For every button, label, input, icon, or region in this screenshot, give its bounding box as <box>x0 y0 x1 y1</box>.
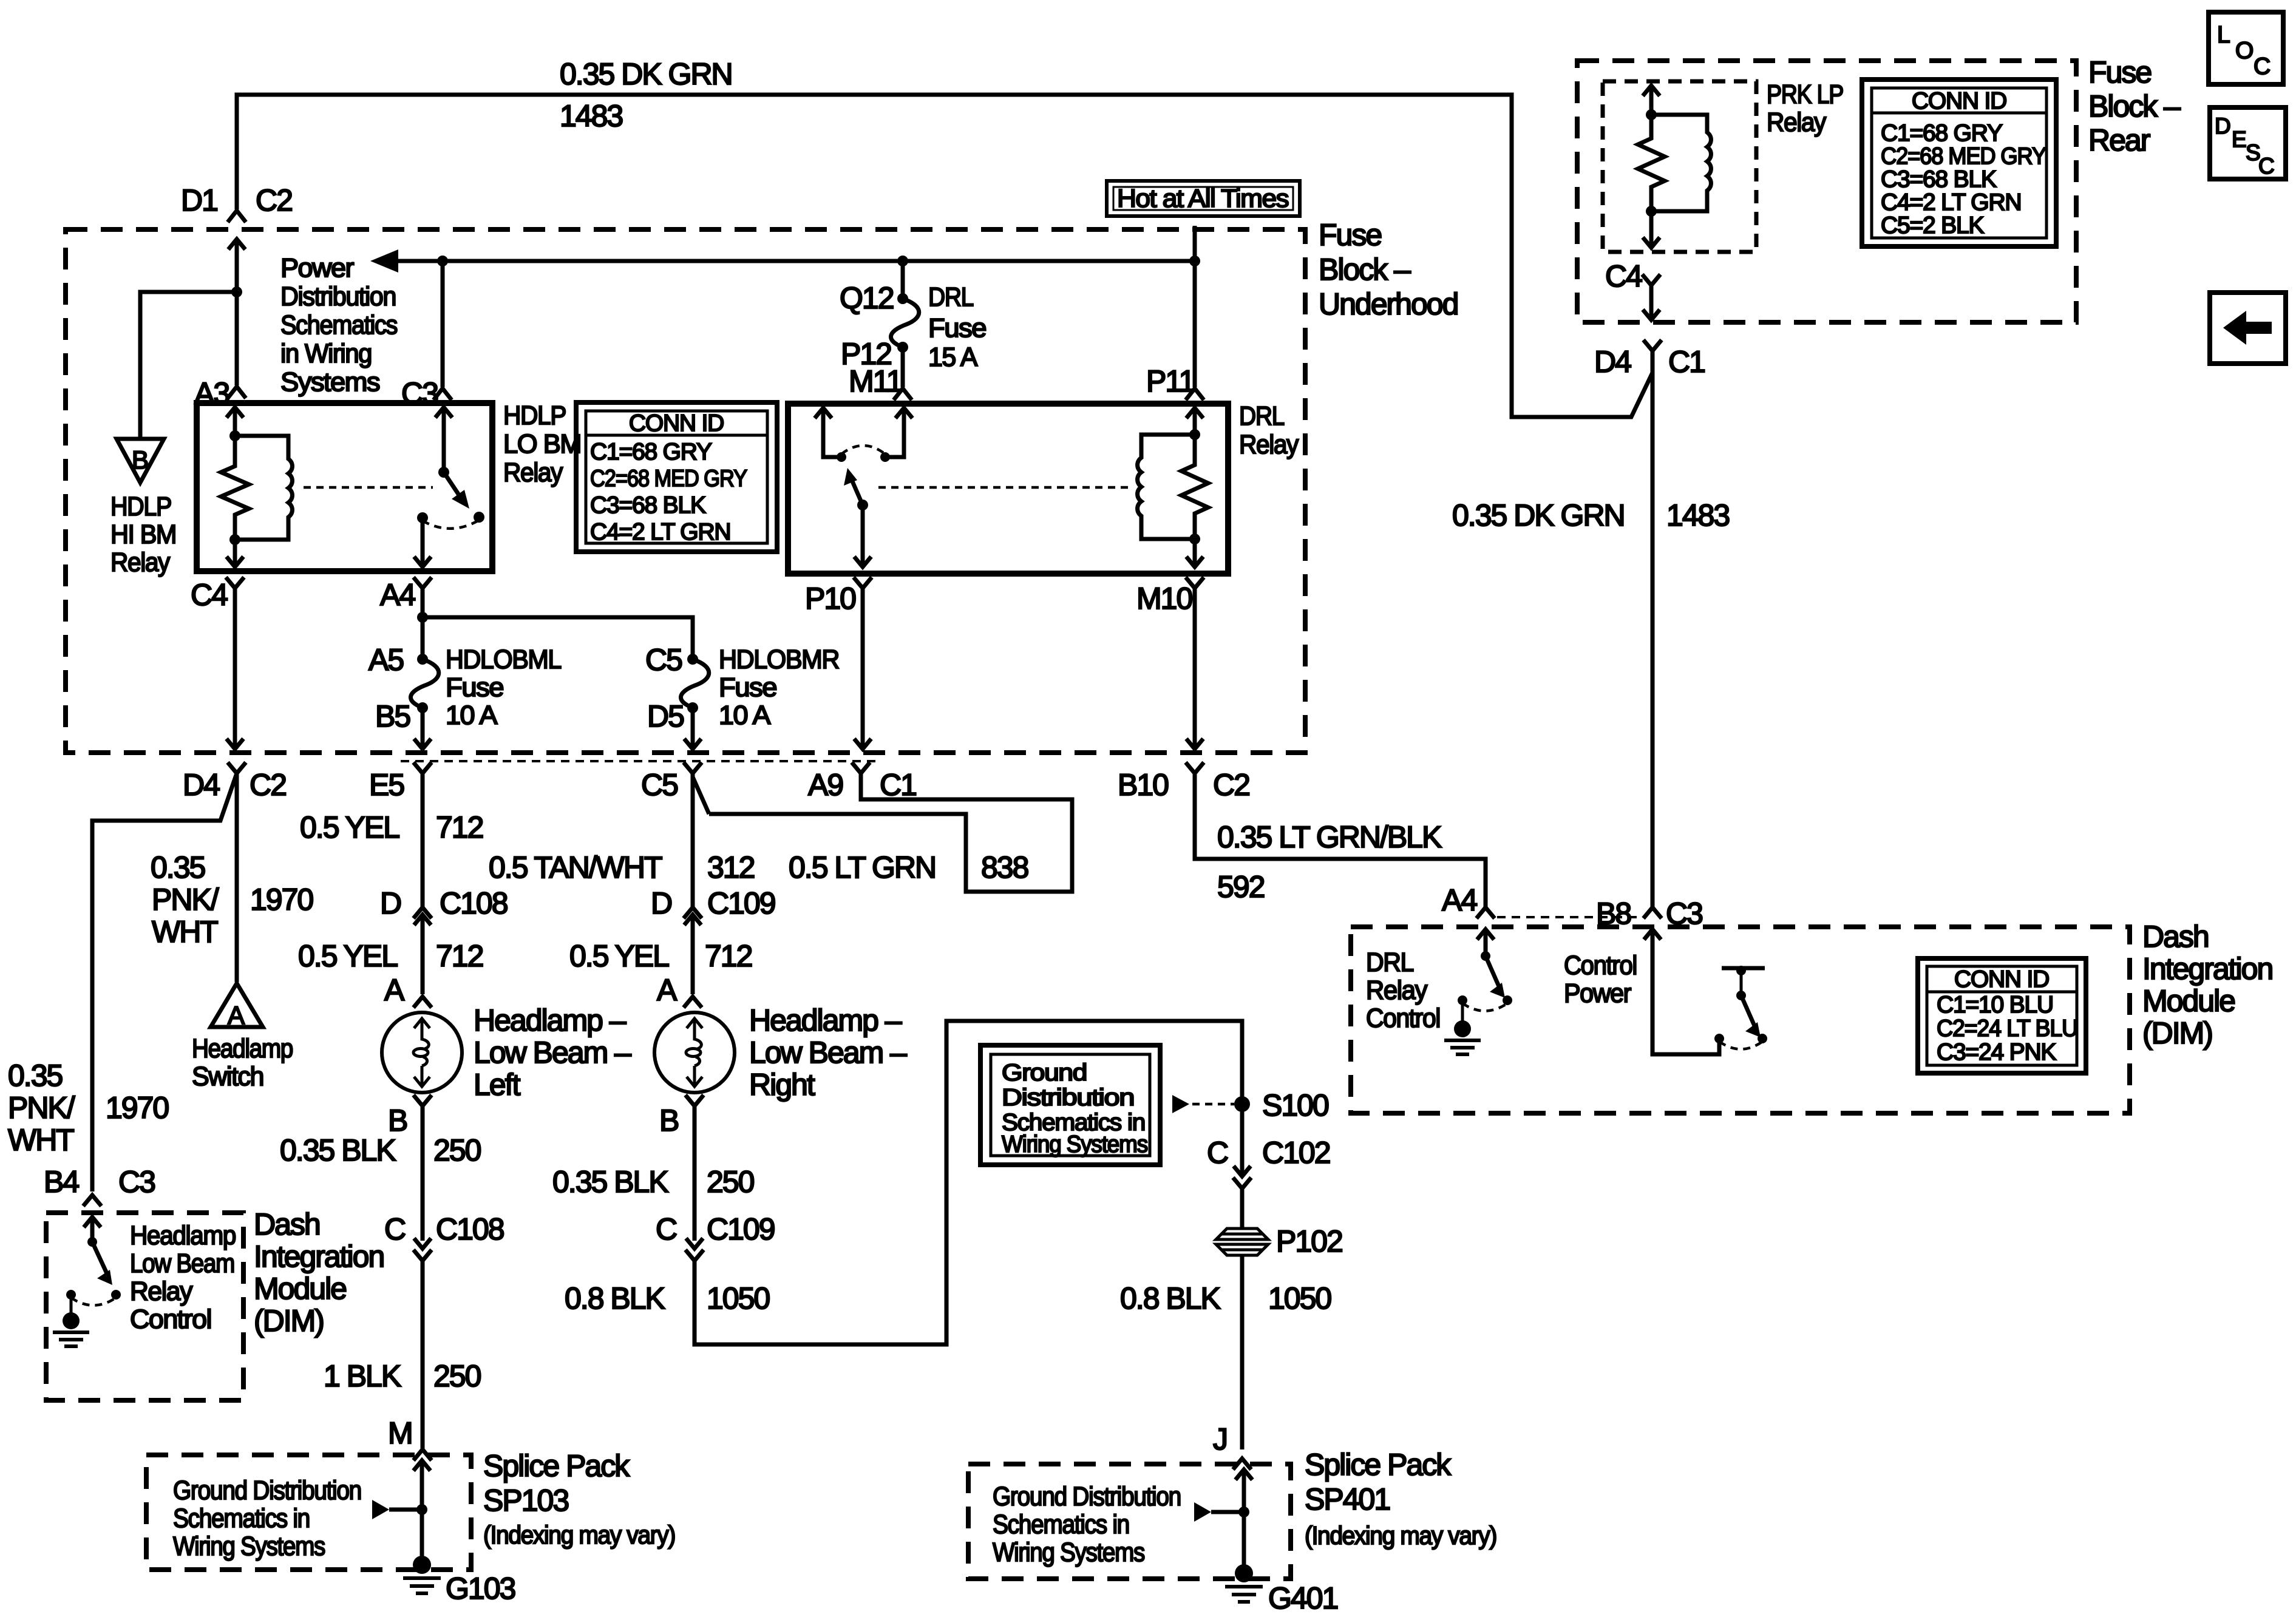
svg-text:Schematics: Schematics <box>280 310 397 340</box>
connector fork C4 PRK <box>1642 274 1660 320</box>
svg-text:A5: A5 <box>369 643 403 677</box>
junction dot coil bottom <box>229 534 240 545</box>
dashed throw arc control power <box>1719 1042 1762 1049</box>
svg-text:Relay: Relay <box>130 1276 192 1306</box>
wire A4 to fuse HDLOBML <box>421 617 425 659</box>
connector face dashed line C1 row <box>401 760 877 762</box>
svg-text:Fuse: Fuse <box>446 673 503 702</box>
connector pair C108 row C <box>413 1238 432 1449</box>
svg-text:Control: Control <box>1564 951 1637 980</box>
svg-text:0.35: 0.35 <box>151 850 205 884</box>
svg-text:1483: 1483 <box>1666 498 1729 532</box>
connector fork A4 DIM <box>1476 907 1495 918</box>
wire P10 to boundary <box>854 577 872 749</box>
svg-text:LO BM: LO BM <box>503 429 581 459</box>
svg-text:CONN ID: CONN ID <box>629 410 724 436</box>
svg-text:(Indexing may vary): (Indexing may vary) <box>483 1520 675 1549</box>
junction dot DRL fuse branch <box>897 256 908 266</box>
wire 1050 right lamp to S100 <box>695 1021 1242 1344</box>
DIM left dashed box <box>46 1213 243 1400</box>
svg-text:C: C <box>656 1212 677 1246</box>
switch contact dots DIM left <box>111 1290 121 1300</box>
svg-text:M10: M10 <box>1136 581 1192 615</box>
svg-text:J: J <box>1213 1422 1227 1456</box>
svg-text:B: B <box>388 1103 407 1137</box>
wire C3 drop <box>441 261 445 387</box>
fuse DRL terminal dot Q12 <box>897 293 908 304</box>
coil HDLP LO BM relay <box>235 436 292 540</box>
svg-text:Relay: Relay <box>1767 107 1826 137</box>
connector fork lamp left A <box>413 997 432 1008</box>
dashed throw arc DRL relay control <box>1462 1003 1507 1011</box>
svg-text:L: L <box>2217 22 2230 48</box>
svg-text:Fuse: Fuse <box>928 313 986 343</box>
triangle reference B (HDLP HI BM Relay) <box>117 439 164 483</box>
arrow pointer to S100 <box>1172 1095 1189 1113</box>
svg-text:D4: D4 <box>183 768 220 802</box>
svg-text:in Wiring: in Wiring <box>280 339 372 368</box>
svg-text:P10: P10 <box>805 581 855 615</box>
connector fork A9/C1 <box>852 762 870 773</box>
svg-text:B5: B5 <box>375 699 410 733</box>
junction dot SP103 <box>416 1504 427 1515</box>
svg-text:B: B <box>659 1103 678 1137</box>
headlamp low beam left bulb <box>382 1012 462 1093</box>
svg-text:1050: 1050 <box>707 1281 769 1315</box>
svg-text:C4=2 LT GRN: C4=2 LT GRN <box>1881 189 2021 215</box>
ground G103 <box>420 1510 424 1558</box>
connector fork B4/C3 <box>83 1195 101 1206</box>
svg-text:Ground: Ground <box>1002 1060 1087 1086</box>
svg-text:0.5 YEL: 0.5 YEL <box>300 810 399 844</box>
splice pack SP103 dashed box <box>146 1455 471 1570</box>
svg-text:Underhood: Underhood <box>1319 287 1458 321</box>
Fuse Block Underhood dashed box <box>66 229 1305 753</box>
dashed actuator link DRL relay <box>878 486 1128 489</box>
dashed actuator link HDLP relay <box>304 486 433 489</box>
connector fork lamp left B <box>413 1095 432 1241</box>
svg-text:(DIM): (DIM) <box>2142 1016 2212 1050</box>
svg-text:M: M <box>388 1416 412 1450</box>
svg-text:0.8 BLK: 0.8 BLK <box>565 1281 665 1315</box>
svg-text:Switch: Switch <box>192 1062 263 1091</box>
DIM right dashed box <box>1351 927 2130 1113</box>
svg-text:0.35: 0.35 <box>8 1059 63 1093</box>
fuse DRL terminal dot P12 <box>897 342 908 353</box>
svg-text:0.5 LT GRN: 0.5 LT GRN <box>789 850 936 884</box>
svg-text:1 BLK: 1 BLK <box>324 1359 401 1393</box>
svg-text:Hot at All Times: Hot at All Times <box>1117 184 1289 212</box>
svg-text:1970: 1970 <box>106 1091 168 1125</box>
svg-text:10 A: 10 A <box>446 700 498 730</box>
svg-text:C2: C2 <box>1213 768 1249 802</box>
connector fork lamp right A <box>684 997 702 1008</box>
svg-text:P11: P11 <box>1146 364 1194 398</box>
svg-text:DRL: DRL <box>1366 947 1414 977</box>
svg-text:0.5 YEL: 0.5 YEL <box>569 939 669 973</box>
coil DRL relay <box>1138 435 1195 539</box>
connector fork C3 <box>433 388 452 400</box>
wire D5 to boundary <box>684 708 701 749</box>
junction dot coil top <box>229 430 240 441</box>
svg-text:Headlamp: Headlamp <box>192 1034 293 1063</box>
ground inside DIM right <box>1461 1000 1464 1022</box>
wire 592 from B10 to DIM A4 <box>1195 773 1486 907</box>
svg-text:HDLOBMR: HDLOBMR <box>719 645 839 674</box>
svg-text:Dash: Dash <box>2142 920 2209 954</box>
svg-text:592: 592 <box>1217 870 1265 904</box>
switch control power fixed bar <box>1722 966 1765 971</box>
arrow to Power Distribution Schematics <box>370 249 398 273</box>
connector fork M splice pack <box>413 1449 432 1460</box>
svg-text:C: C <box>384 1212 406 1246</box>
wire D1 to A3 <box>235 292 239 385</box>
svg-text:712: 712 <box>436 810 483 844</box>
Fuse Block Rear dashed box <box>1577 61 2076 322</box>
inline connector P102 <box>1216 1229 1268 1239</box>
junction dot below D1 <box>231 286 242 297</box>
svg-text:Fuse: Fuse <box>1319 218 1381 252</box>
svg-text:S100: S100 <box>1262 1088 1328 1122</box>
back arrow box <box>2210 293 2286 364</box>
svg-text:Relay: Relay <box>1366 975 1427 1005</box>
arrow NC throw DRL relay <box>815 408 841 457</box>
ground inside DIM left <box>70 1295 73 1314</box>
headlamp low beam right bulb <box>654 1012 735 1093</box>
svg-text:Low Beam: Low Beam <box>130 1249 234 1278</box>
svg-text:C3: C3 <box>1666 897 1702 931</box>
svg-text:G103: G103 <box>446 1571 515 1605</box>
svg-text:Wiring Systems: Wiring Systems <box>993 1537 1144 1567</box>
connector face dashed line DIM <box>1497 916 1643 918</box>
junction dot SP401 <box>1238 1507 1249 1517</box>
svg-text:CONN ID: CONN ID <box>1954 966 2049 992</box>
svg-text:WHT: WHT <box>152 915 218 949</box>
svg-text:HDLP: HDLP <box>110 492 171 521</box>
svg-text:Splice Pack: Splice Pack <box>1305 1448 1452 1482</box>
svg-text:C: C <box>2254 53 2270 80</box>
junction dot DRL coil bottom <box>1189 534 1200 544</box>
svg-text:712: 712 <box>705 939 752 973</box>
splice S100 junction dot <box>1234 1096 1250 1112</box>
connector fork J splice pack <box>1233 1459 1251 1470</box>
connector fork C4 under relay <box>226 577 244 749</box>
svg-text:0.35 DK GRN: 0.35 DK GRN <box>560 57 732 91</box>
svg-text:Rear: Rear <box>2088 123 2150 157</box>
wire arm to P10 arrow <box>854 505 871 567</box>
svg-text:SP401: SP401 <box>1305 1482 1390 1516</box>
svg-text:Power: Power <box>280 253 354 283</box>
connector pair C109 row D <box>684 907 702 994</box>
fuse HDLOBML element <box>411 659 439 708</box>
svg-text:C3=68 BLK: C3=68 BLK <box>590 492 706 518</box>
wire 1970 diagonal to headlamp switch feed <box>92 773 237 1192</box>
svg-text:PRK LP: PRK LP <box>1767 80 1843 109</box>
connector pair C102 <box>1233 1166 1251 1227</box>
svg-text:Block –: Block – <box>2088 89 2181 123</box>
svg-text:P102: P102 <box>1276 1224 1342 1258</box>
svg-text:D: D <box>380 886 401 920</box>
svg-text:Systems: Systems <box>280 367 380 397</box>
svg-text:DRL: DRL <box>928 282 974 312</box>
svg-text:A: A <box>384 973 405 1007</box>
svg-text:CONN ID: CONN ID <box>1912 88 2006 114</box>
wire M10 to boundary <box>1186 577 1204 749</box>
svg-text:C3=24 PNK: C3=24 PNK <box>1937 1039 2056 1065</box>
svg-text:(DIM): (DIM) <box>254 1304 324 1338</box>
svg-text:A: A <box>228 1001 245 1029</box>
connector pair C109 row C <box>685 1238 704 1261</box>
arrow into box at D1 <box>228 239 245 292</box>
arrow pin M10 inside DRL relay <box>1186 539 1203 567</box>
arrow pin C4 inside relay <box>226 540 243 567</box>
wire 1483 top run from D1/C2 to D4/C1 <box>237 95 1652 417</box>
switch arm HDLP relay <box>435 407 452 472</box>
arrow Ground Distribution pointer SP401 <box>1194 1502 1211 1522</box>
svg-text:Module: Module <box>2142 984 2235 1018</box>
svg-text:C109: C109 <box>707 886 775 920</box>
arrow pin P11 inside DRL relay <box>1186 408 1203 435</box>
resistor DRL relay <box>1181 435 1208 539</box>
svg-text:Control: Control <box>130 1304 211 1334</box>
svg-text:Q12: Q12 <box>840 281 894 315</box>
svg-text:250: 250 <box>433 1359 481 1393</box>
svg-text:Left: Left <box>474 1068 521 1102</box>
svg-text:D1: D1 <box>181 183 217 217</box>
svg-text:M11: M11 <box>849 364 902 398</box>
connector fork P11 <box>1186 388 1204 400</box>
svg-text:Headlamp: Headlamp <box>130 1221 236 1250</box>
fuse HDLOBMR terminal dot D5 <box>687 702 698 713</box>
ground G401 <box>1242 1512 1246 1566</box>
svg-text:C: C <box>1207 1136 1228 1170</box>
svg-text:SP103: SP103 <box>483 1483 568 1517</box>
svg-text:Low Beam –: Low Beam – <box>474 1036 631 1070</box>
svg-text:WHT: WHT <box>8 1123 74 1157</box>
svg-text:D5: D5 <box>647 699 684 733</box>
svg-text:C5=2 BLK: C5=2 BLK <box>1881 212 1984 239</box>
connector fork A3 <box>228 387 246 398</box>
svg-text:0.8 BLK: 0.8 BLK <box>1120 1281 1221 1315</box>
svg-text:HI BM: HI BM <box>110 520 176 549</box>
svg-text:C5: C5 <box>641 768 678 802</box>
svg-text:C3: C3 <box>118 1165 155 1199</box>
CONN ID table DIM <box>1918 958 2086 1073</box>
arrow into DIM at B8 and feed wire <box>1644 929 1719 1054</box>
svg-text:B4: B4 <box>44 1165 79 1199</box>
arrow Ground Distribution pointer SP103 <box>372 1500 389 1519</box>
svg-text:15 A: 15 A <box>928 342 978 372</box>
svg-text:(Indexing may vary): (Indexing may vary) <box>1305 1521 1496 1550</box>
svg-text:Right: Right <box>749 1068 815 1102</box>
svg-text:10 A: 10 A <box>719 700 771 730</box>
resistor PRK LP relay <box>1638 115 1665 211</box>
svg-text:Ground Distribution: Ground Distribution <box>173 1476 361 1505</box>
svg-text:E: E <box>2232 127 2247 152</box>
svg-text:C1=10 BLU: C1=10 BLU <box>1937 992 2053 1018</box>
svg-text:C108: C108 <box>436 1212 504 1246</box>
svg-text:O: O <box>2235 38 2253 64</box>
svg-text:Distribution: Distribution <box>280 282 396 311</box>
wire drop to Q12 <box>901 261 905 299</box>
svg-text:C109: C109 <box>707 1212 775 1246</box>
svg-text:0.5 YEL: 0.5 YEL <box>298 939 398 973</box>
svg-text:D: D <box>651 886 671 920</box>
Hot at All Times box <box>1107 181 1300 216</box>
svg-text:PNK/: PNK/ <box>152 883 219 917</box>
switch contact dots HDLP relay <box>417 512 428 523</box>
svg-text:C102: C102 <box>1262 1136 1330 1170</box>
svg-text:C2: C2 <box>250 768 286 802</box>
svg-text:HDLP: HDLP <box>503 401 566 430</box>
svg-text:B10: B10 <box>1118 768 1168 802</box>
svg-text:A4: A4 <box>380 578 415 612</box>
svg-text:Fuse: Fuse <box>719 673 776 702</box>
svg-text:Ground Distribution: Ground Distribution <box>993 1482 1181 1511</box>
connector fork A4 under relay <box>413 577 432 617</box>
arrow pin A3 inside relay <box>226 407 243 436</box>
svg-text:C1=68 GRY: C1=68 GRY <box>590 439 712 465</box>
svg-text:D4: D4 <box>1594 345 1631 379</box>
relay DRL box <box>788 404 1228 574</box>
svg-text:Schematics in: Schematics in <box>173 1503 310 1533</box>
wire branch to HDLP HI BM triangle B <box>140 292 237 438</box>
svg-text:1483: 1483 <box>560 99 622 133</box>
svg-text:C2=68 MED GRY: C2=68 MED GRY <box>1881 143 2046 169</box>
svg-text:Integration: Integration <box>254 1239 384 1273</box>
fuse HDLOBMR element <box>681 659 709 708</box>
svg-text:C108: C108 <box>440 886 508 920</box>
svg-text:Relay: Relay <box>503 458 563 487</box>
connector fork D1/C2 <box>228 211 246 222</box>
wire 1483 vertical D4/C1 to B8 <box>1651 351 1655 907</box>
svg-text:B8: B8 <box>1596 897 1631 931</box>
svg-text:A: A <box>657 973 678 1007</box>
svg-text:Splice Pack: Splice Pack <box>483 1449 630 1483</box>
svg-text:1970: 1970 <box>250 883 313 917</box>
svg-text:C2=68 MED GRY: C2=68 MED GRY <box>590 466 747 492</box>
svg-text:Fuse: Fuse <box>2088 55 2151 89</box>
svg-text:312: 312 <box>707 850 755 884</box>
junction dot C3 branch <box>437 256 448 266</box>
svg-text:0.35 LT GRN/BLK: 0.35 LT GRN/BLK <box>1217 820 1442 854</box>
svg-text:C3=68 BLK: C3=68 BLK <box>1881 166 1997 192</box>
junction dot PRK coil top <box>1646 109 1657 120</box>
connector fork lamp right B <box>685 1095 704 1241</box>
wire contact to A4 arrow <box>414 518 431 567</box>
svg-text:PNK/: PNK/ <box>8 1091 75 1125</box>
wire P12 to M11 <box>901 347 905 387</box>
svg-text:0.5 TAN/WHT: 0.5 TAN/WHT <box>489 850 662 884</box>
wire P102 to J <box>1240 1254 1245 1449</box>
switch arm control power <box>1736 991 1746 1000</box>
switch arm DRL relay <box>857 500 868 510</box>
connector fork D4/C1 <box>1643 340 1662 351</box>
svg-text:C2=24 LT BLU: C2=24 LT BLU <box>1937 1015 2077 1042</box>
svg-text:A9: A9 <box>808 768 843 802</box>
svg-text:712: 712 <box>436 939 483 973</box>
fuse DRL element <box>891 299 919 347</box>
svg-text:Integration: Integration <box>2142 952 2272 986</box>
coil PRK LP relay <box>1651 115 1711 211</box>
fuse HDLOBML terminal dot B5 <box>417 702 428 713</box>
svg-text:Headlamp –: Headlamp – <box>749 1003 902 1037</box>
dashed throw arc DRL relay <box>841 446 885 454</box>
svg-text:Dash: Dash <box>254 1207 320 1241</box>
wire P11 drop from boundary <box>1193 226 1197 387</box>
svg-text:Headlamp –: Headlamp – <box>474 1003 627 1037</box>
connector fork E5 <box>413 762 432 907</box>
arrow into DIM at A4 <box>1477 929 1494 956</box>
switch arm headlamp low beam relay control <box>87 1237 97 1247</box>
junction dot DRL coil top <box>1189 429 1200 440</box>
bus wire hot feed <box>398 259 1195 263</box>
relay HDLP LO BM box <box>197 403 492 571</box>
triangle reference A (headlamp switch) <box>211 983 263 1027</box>
svg-text:G401: G401 <box>1268 1581 1338 1615</box>
arrow into DIM at B4 <box>84 1217 101 1242</box>
dashed throw arc HDLP relay <box>423 520 479 529</box>
resistor HDLP LO BM relay <box>221 436 249 540</box>
svg-text:C5: C5 <box>645 643 682 677</box>
svg-text:B: B <box>132 446 148 474</box>
svg-text:C1: C1 <box>1668 345 1705 379</box>
arrow pin bottom PRK LP relay <box>1643 211 1660 248</box>
connector fork D4/C2 bottom row <box>228 762 246 773</box>
svg-text:D: D <box>2215 114 2231 138</box>
svg-text:Low Beam –: Low Beam – <box>749 1036 907 1070</box>
junction dot P11 branch <box>1189 256 1200 266</box>
dashed throw arc DIM left <box>71 1298 116 1306</box>
PRK LP relay inner dashed box <box>1603 81 1756 252</box>
svg-text:Wiring Systems: Wiring Systems <box>1002 1131 1148 1158</box>
junction dot A4 branch <box>417 612 428 623</box>
svg-text:C1: C1 <box>880 768 916 802</box>
wire 312 diagonal from C5 <box>693 777 709 814</box>
svg-text:Distribution: Distribution <box>1002 1085 1134 1111</box>
connector pair C108 row D <box>413 907 432 994</box>
svg-text:C: C <box>2258 154 2275 178</box>
svg-text:C1=68 GRY: C1=68 GRY <box>1881 120 2003 146</box>
svg-text:Wiring Systems: Wiring Systems <box>173 1531 325 1561</box>
connector fork M11 <box>894 388 912 400</box>
switch contact dots control power <box>1714 1034 1724 1043</box>
ground distribution box (solid, S100) <box>980 1045 1160 1165</box>
switch contact dots DRL relay control <box>1503 995 1512 1005</box>
svg-text:0.35 DK GRN: 0.35 DK GRN <box>1452 498 1625 532</box>
svg-text:C4: C4 <box>1605 259 1642 293</box>
svg-text:C4=2 LT GRN: C4=2 LT GRN <box>590 519 730 545</box>
svg-text:Relay: Relay <box>1239 430 1299 459</box>
arrow into SP401 <box>1235 1470 1252 1512</box>
svg-text:250: 250 <box>433 1133 481 1167</box>
svg-text:Schematics in: Schematics in <box>993 1510 1129 1539</box>
fuse HDLOBML terminal dot A5 <box>417 654 428 665</box>
svg-text:E5: E5 <box>369 768 404 802</box>
wire 838 snake from C1 to C5 <box>709 773 1072 892</box>
connector fork B10/C2 <box>1186 762 1204 773</box>
arrow into SP103 <box>413 1460 430 1510</box>
CONN ID table rear <box>1862 80 2056 246</box>
svg-text:Block –: Block – <box>1319 253 1411 286</box>
svg-text:Module: Module <box>254 1272 346 1306</box>
svg-text:A4: A4 <box>1442 883 1477 917</box>
svg-text:1050: 1050 <box>1268 1281 1331 1315</box>
arrow pin top PRK LP relay <box>1643 86 1660 115</box>
fuse HDLOBMR terminal dot C5 <box>687 654 698 665</box>
DESC reference box <box>2210 107 2286 179</box>
LOC reference box <box>2209 12 2283 84</box>
